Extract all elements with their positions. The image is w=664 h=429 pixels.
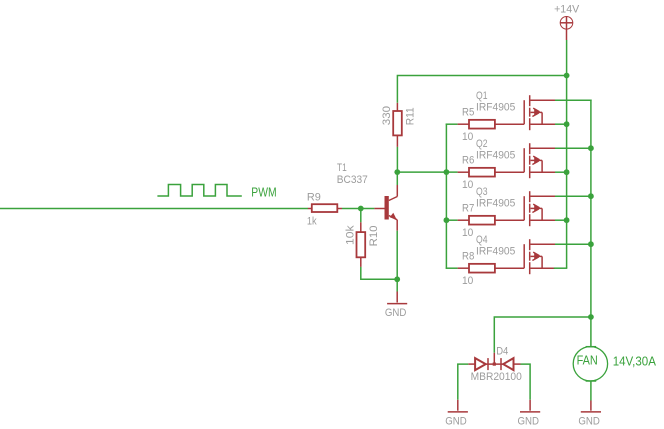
svg-text:14V,30A: 14V,30A [613, 353, 656, 368]
svg-text:1k: 1k [307, 215, 317, 227]
node +14V rail junction [564, 73, 570, 79]
wire drain rail vertical to FAN [590, 100, 592, 347]
resistor R10 10k [345, 222, 380, 267]
wire output node to D4 [494, 317, 591, 353]
wire PWM input net from left edge to R9 [0, 208, 308, 210]
wire Q2 drain to output rail [555, 147, 591, 149]
wire D4 left anode to GND [458, 364, 469, 400]
wire R9 to T1 base node [342, 208, 374, 210]
svg-text:R7: R7 [462, 203, 474, 215]
svg-text:+14V: +14V [554, 3, 580, 15]
wire Q3 source pin to +14V rail [555, 219, 567, 221]
wire FAN to GND [590, 381, 592, 401]
svg-text:R11: R11 [405, 107, 417, 125]
resistor R7 10 (gate resistor) [458, 203, 525, 239]
svg-text:GND: GND [445, 415, 467, 427]
node output to diode junction [588, 314, 594, 320]
svg-text:R5: R5 [462, 107, 474, 119]
wire Q2 source pin to +14V rail [555, 171, 567, 173]
wire collector up to node [396, 172, 398, 185]
ground GND below D4 left [445, 400, 468, 428]
transistor Q1 IRF4905 P-MOSFET [476, 90, 555, 130]
wire gate bus vertical [445, 124, 447, 269]
node emitter junction [394, 276, 400, 282]
svg-text:Q4: Q4 [476, 234, 488, 246]
resistor R9 1k [307, 191, 342, 227]
node gate bus junction row2 [444, 169, 450, 175]
resistor R11 330 [381, 103, 417, 147]
svg-text:IRF4905: IRF4905 [476, 246, 515, 258]
svg-text:R6: R6 [462, 155, 474, 167]
wire Q3 drain to output rail [555, 195, 591, 197]
wire emitter to GND lead [396, 231, 398, 292]
svg-text:10: 10 [462, 227, 473, 239]
PWM waveform symbol [157, 185, 241, 197]
svg-text:330: 330 [381, 106, 393, 125]
wire base node down to R10 [360, 209, 362, 223]
wire Q4 drain to output rail [555, 243, 591, 245]
wire Q4 source pin to +14V rail corner [554, 267, 568, 269]
wire R11 top to +14V rail [397, 76, 566, 103]
svg-text:GND: GND [518, 415, 540, 427]
svg-text:Q3: Q3 [476, 186, 488, 198]
wire bus corner to R8 [446, 267, 458, 269]
svg-text:R10: R10 [368, 226, 380, 247]
transistor Q3 IRF4905 P-MOSFET [476, 186, 555, 226]
ground GND below FAN [578, 401, 601, 428]
resistor R8 10 (gate resistor) [458, 251, 525, 287]
wire bus corner to R5 [446, 123, 458, 125]
node output rail junction row2 [588, 145, 594, 151]
resistor R5 10 (gate resistor) [458, 107, 525, 143]
ground GND below D4 right [518, 400, 541, 428]
diode D4 MBR20100 dual schottky [468, 346, 522, 384]
ground GND below T1 [385, 292, 407, 320]
transistor T1 BC337 NPN [337, 162, 398, 231]
node output rail junction row4 [588, 241, 594, 247]
svg-text:IRF4905: IRF4905 [476, 102, 515, 114]
node gate bus junction row3 [444, 217, 450, 223]
transistor Q2 IRF4905 P-MOSFET [476, 138, 555, 178]
node +14V rail junction row1 [564, 121, 570, 127]
wire R10 bottom to emitter node [361, 267, 397, 279]
svg-text:10: 10 [462, 275, 473, 287]
svg-text:R8: R8 [462, 251, 474, 263]
svg-text:BC337: BC337 [337, 174, 368, 186]
svg-text:MBR20100: MBR20100 [471, 371, 522, 383]
node +14V rail junction row2 [564, 169, 570, 175]
svg-text:10: 10 [462, 179, 473, 191]
svg-text:IRF4905: IRF4905 [476, 150, 515, 162]
wire D4 right anode to GND [521, 364, 531, 400]
svg-text:10: 10 [462, 131, 473, 143]
wire collector node to gate bus and R6 [397, 171, 457, 173]
wire Q1 drain to output rail corner [555, 99, 592, 101]
svg-text:D4: D4 [496, 346, 508, 358]
wire +14V down to rail node [566, 40, 568, 76]
svg-text:Q1: Q1 [476, 90, 488, 102]
transistor Q4 IRF4905 P-MOSFET [476, 234, 555, 274]
wire +14V source rail vertical [566, 76, 568, 269]
svg-text:R9: R9 [307, 191, 321, 203]
wire R11 bottom to collector node [396, 147, 398, 172]
node base junction [358, 206, 364, 212]
svg-text:10k: 10k [345, 225, 357, 245]
node output rail junction row3 [588, 193, 594, 199]
motor FAN 14V,30A [573, 347, 656, 381]
svg-text:IRF4905: IRF4905 [476, 198, 515, 210]
node +14V rail junction row3 [564, 217, 570, 223]
svg-text:T1: T1 [337, 162, 347, 174]
svg-text:Q2: Q2 [476, 138, 488, 150]
wire bus to R7 [446, 219, 457, 221]
node collector junction [394, 169, 400, 175]
svg-text:FAN: FAN [577, 353, 598, 368]
svg-text:PWM: PWM [251, 184, 276, 199]
svg-text:GND: GND [578, 415, 600, 427]
wire Q1 source pin to +14V rail [555, 123, 567, 125]
resistor R6 10 (gate resistor) [458, 155, 525, 191]
svg-text:GND: GND [385, 307, 407, 319]
power +14V supply symbol [554, 3, 580, 40]
